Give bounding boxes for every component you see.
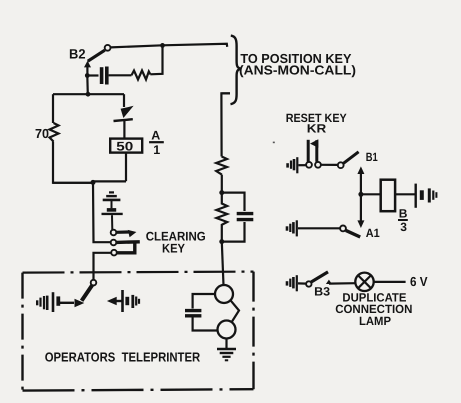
- clearing key contact 1: [111, 230, 137, 238]
- teleprinter switch contact: [91, 280, 97, 286]
- wire relay coil to battery: [395, 193, 415, 195]
- switch arm B3: [311, 272, 328, 282]
- label DUPLICATE CONNECTION LAMP: [335, 291, 412, 329]
- brace to position key: [231, 36, 242, 105]
- wire battery to reset key: [299, 164, 307, 166]
- wire loop bottom to clearing key contact 2: [93, 183, 111, 242]
- node junction top wire: [160, 43, 165, 48]
- battery (A1 branch): [287, 220, 297, 236]
- label B/3: [398, 207, 408, 234]
- battery (relay B3): [416, 184, 437, 208]
- wire rectifier to box 50: [123, 120, 125, 139]
- arrow contact left (second): [107, 297, 117, 305]
- teleprinter sounder top coil: [215, 285, 233, 303]
- svg-text:KR: KR: [307, 121, 327, 135]
- wire clearing key contact 3 to teleprinter switch: [94, 253, 112, 280]
- battery right (teleprinter): [123, 290, 140, 312]
- svg-text:3: 3: [400, 220, 407, 234]
- wire loop left upper: [52, 94, 54, 123]
- svg-text:A1: A1: [366, 226, 380, 240]
- node junction at B2 / snubber: [85, 73, 90, 78]
- capacitor (parallel RC) plates: [237, 214, 254, 220]
- svg-text:LAMP: LAMP: [359, 314, 391, 328]
- resistor (parallel RC): [216, 193, 227, 242]
- teleprinter switch arm: [82, 285, 93, 301]
- dashed enclosure OPERATORS TELEPRINTER top border: [23, 272, 254, 273]
- clearing key contact 2: [111, 240, 140, 246]
- wire loop top: [53, 93, 124, 95]
- wire junction to relay coil B3: [361, 193, 381, 195]
- capacitor (clearing key): [102, 210, 123, 230]
- resistor (snubber): [132, 71, 151, 80]
- battery left (teleprinter): [37, 292, 58, 312]
- arrow down toward A1: [357, 220, 364, 228]
- dashed enclosure right border: [252, 272, 254, 390]
- wire capacitor to resistor: [109, 74, 132, 76]
- wire lamp to 6V: [374, 281, 406, 283]
- link between coils: [231, 300, 240, 322]
- resistor line (upper): [216, 157, 227, 175]
- node junction relay: [358, 192, 363, 197]
- wire lower into brace: [221, 92, 230, 94]
- svg-text:B: B: [399, 207, 408, 221]
- rectifier (metal rectifier): [114, 106, 134, 121]
- svg-text:B2: B2: [69, 46, 86, 61]
- wire resistor to junction: [221, 175, 223, 193]
- label A/1: [149, 128, 164, 157]
- arrow contact right: [75, 299, 85, 307]
- dashed enclosure left border: [21, 273, 23, 391]
- wire arrow to battery right: [115, 300, 122, 302]
- ground (teleprinter): [217, 339, 236, 361]
- wire battery to arrow: [60, 302, 74, 304]
- wire box 50 to loop bottom: [125, 153, 127, 182]
- reset key contact 1: [306, 162, 312, 168]
- contact B3: [306, 281, 311, 286]
- wire contact to lamp: [329, 282, 356, 285]
- arrow contact (lamp wire): [326, 280, 332, 284]
- switch arm A1: [346, 230, 360, 237]
- capacitor (teleprinter) plates: [185, 311, 201, 316]
- node junction lower (parallel RC): [219, 239, 224, 244]
- wire top horizontal from B2 contact to brace: [111, 44, 228, 48]
- svg-text:B1: B1: [366, 150, 378, 164]
- wire loop left lower: [53, 142, 93, 183]
- arrow up toward B1: [357, 166, 364, 174]
- wire junction down into teleprinter: [222, 242, 224, 286]
- earth (inverted) above capacitor: [103, 192, 121, 208]
- capacitor (snubber): [102, 67, 107, 85]
- resistor 70: [50, 123, 59, 142]
- svg-text:A: A: [151, 128, 160, 142]
- svg-text:OPERATORS TELEPRINTER: OPERATORS TELEPRINTER: [45, 349, 201, 364]
- wire main vertical from brace corner down: [221, 93, 230, 156]
- clearing key contact 3: [111, 243, 135, 255]
- switch arm B1: [343, 152, 358, 164]
- capacitor (parallel RC) wires: [222, 193, 245, 211]
- svg-text:70: 70: [35, 126, 49, 141]
- capacitor (teleprinter) wires: [193, 294, 215, 309]
- wire battery to A1 contact: [298, 227, 340, 229]
- key B2 switch arm: [84, 45, 111, 76]
- wire relay vertical: [360, 173, 362, 222]
- wire resistor up to top wire: [150, 45, 162, 74]
- wire loop right upper: [123, 94, 125, 107]
- reset key contact 2: [315, 162, 321, 168]
- svg-text:(ANS-MON-CALL): (ANS-MON-CALL): [239, 63, 356, 78]
- svg-text:KEY: KEY: [162, 242, 186, 256]
- reset key actuator: [308, 139, 318, 162]
- battery (lamp circuit): [287, 275, 297, 291]
- svg-text:1: 1: [153, 143, 160, 157]
- component box 50 (relay A): [110, 139, 142, 154]
- battery (reset key): [288, 157, 298, 173]
- svg-text:B3: B3: [314, 285, 330, 299]
- wire reset key to B1 contact: [321, 164, 338, 166]
- dashed enclosure bottom border: [23, 389, 254, 390]
- relay coil B3 box: [381, 180, 395, 212]
- wire B2 junction down to loop top: [86, 76, 89, 95]
- wire junction to capacitor: [87, 74, 98, 76]
- teleprinter sounder bottom coil: [218, 321, 236, 339]
- node junction upper (parallel RC): [219, 190, 224, 195]
- svg-text:6 V: 6 V: [410, 274, 428, 289]
- lamp duplicate connection: [355, 273, 373, 291]
- stray mark: [273, 141, 275, 143]
- wire loop bottom: [53, 181, 126, 182]
- contact B1: [338, 162, 344, 168]
- node junction loop top: [86, 92, 91, 97]
- node junction loop bottom: [91, 180, 96, 185]
- wire battery to B3 contact: [298, 282, 306, 284]
- contact A1: [340, 226, 346, 232]
- label CLEARING KEY: [146, 229, 206, 255]
- svg-text:50: 50: [116, 140, 133, 154]
